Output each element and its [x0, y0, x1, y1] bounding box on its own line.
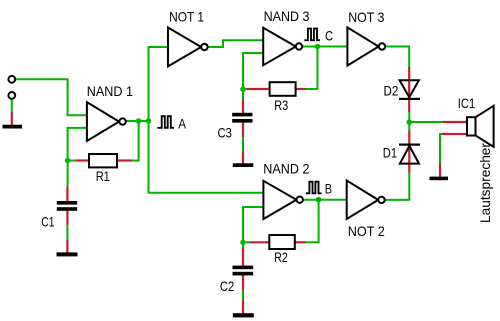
- pin R2 right red: [294, 241, 306, 243]
- node NAND1 out / R1: [136, 118, 142, 124]
- wire below C1: [66, 226, 68, 241]
- svg-text:C: C: [325, 28, 333, 44]
- svg-text:NOT 2: NOT 2: [348, 223, 385, 239]
- ground speaker: [430, 177, 449, 181]
- svg-text:B: B: [325, 181, 332, 197]
- svg-text:NAND 1: NAND 1: [87, 83, 133, 99]
- waveform symbol A: [157, 116, 174, 128]
- pin C1 top red: [66, 187, 68, 203]
- wire around diode node: [408, 112, 410, 131]
- wire NAND2 output to NOT2 input: [303, 199, 348, 201]
- svg-text:D2: D2: [384, 83, 399, 99]
- ground C2: [233, 313, 254, 317]
- pin R3 right red: [295, 88, 307, 90]
- wire NAND1 output: [126, 120, 150, 122]
- node R1/C1: [65, 158, 71, 164]
- svg-text:C1: C1: [41, 213, 54, 229]
- wire R1 right to NAND1 output: [132, 121, 139, 161]
- not-gate NOT1: [168, 28, 201, 67]
- wire R3 left: [243, 88, 248, 90]
- pin R2 left red: [250, 241, 271, 243]
- pin C2 ground red: [242, 300, 244, 314]
- pin D2 red through: [408, 67, 410, 112]
- wire R1 left: [68, 160, 76, 162]
- ground C3: [233, 163, 254, 167]
- not-gate NOT3: [347, 27, 378, 65]
- node NAND3 out / R3: [315, 44, 321, 50]
- wire node A up to NOT1 input: [149, 47, 169, 121]
- diode D2: [400, 80, 419, 97]
- diode D1 cathode bar: [399, 144, 420, 146]
- svg-text:Lautsprecher: Lautsprecher: [477, 143, 493, 223]
- node D1/D2/speaker: [407, 119, 413, 125]
- wire NAND3 lower input to R3/C3 node: [243, 53, 264, 100]
- wire node B down to R2 right: [305, 200, 319, 243]
- ground C1: [57, 252, 78, 256]
- wire NAND3 output to NOT3 input: [302, 46, 348, 48]
- svg-text:A: A: [178, 115, 186, 131]
- speaker IC1 cone: [476, 106, 494, 147]
- input terminal upper: [8, 76, 15, 83]
- node A junction: [146, 118, 152, 124]
- pin C1 bottom red: [66, 210, 68, 226]
- pin C2 bottom red: [242, 275, 244, 290]
- input terminal lower: [8, 92, 15, 99]
- pin R3 left red: [247, 88, 271, 90]
- svg-text:NOT 3: NOT 3: [348, 9, 384, 25]
- capacitor C3: [232, 113, 252, 117]
- waveform symbol B: [306, 182, 322, 194]
- node R3/C3: [240, 86, 246, 92]
- node B junction: [316, 197, 322, 203]
- capacitor C2: [233, 266, 254, 270]
- wire below C3: [242, 137, 244, 152]
- svg-text:R1: R1: [96, 168, 110, 184]
- svg-text:R3: R3: [274, 97, 288, 113]
- pin R1 right red: [116, 159, 132, 161]
- wire below D1 to NOT2 output: [408, 173, 410, 201]
- svg-text:D1: D1: [383, 145, 397, 161]
- pin D1 red through: [408, 131, 410, 173]
- wire node up to NAND2 lower input: [243, 207, 264, 242]
- svg-text:NOT 1: NOT 1: [169, 8, 204, 24]
- wire lower terminal to ground: [11, 99, 13, 113]
- svg-text:NAND 2: NAND 2: [263, 160, 309, 176]
- diode D2 cathode bar: [399, 98, 420, 100]
- wire R2 left to node: [243, 241, 251, 243]
- pin lower terminal red: [11, 112, 13, 126]
- pin R1 left red: [76, 159, 91, 161]
- resistor R1: [89, 154, 117, 167]
- wire NAND1 lower input / C1 / R1 vertical: [68, 128, 88, 187]
- resistor R3: [270, 82, 296, 96]
- not-gate NOT2: [347, 181, 379, 220]
- pin speaker top red: [443, 121, 468, 123]
- wire R3 right up to NAND3 output: [306, 47, 318, 90]
- svg-text:NAND 3: NAND 3: [264, 8, 310, 24]
- svg-text:C2: C2: [220, 278, 234, 294]
- wire NOT2 output: [385, 199, 411, 201]
- pin C3 ground red: [242, 152, 244, 165]
- speaker IC1 coil: [467, 117, 476, 135]
- pin C3 top red: [242, 100, 244, 114]
- wire node down to C2: [242, 242, 244, 248]
- wire below C2: [242, 289, 244, 300]
- pin C1 ground red: [66, 240, 68, 253]
- pin speaker ground red: [439, 163, 441, 178]
- nand-gate NAND2: [263, 181, 296, 219]
- wire node A down to NAND2 upper input: [149, 121, 265, 193]
- wire speaker lower pin down: [440, 134, 443, 163]
- svg-text:IC1: IC1: [458, 95, 476, 111]
- pin speaker bottom red: [442, 133, 469, 135]
- resistor R2: [269, 235, 295, 249]
- pin C3 bottom red: [242, 122, 244, 137]
- diode D1: [400, 146, 419, 164]
- wire input terminal to NAND1 upper input: [15, 79, 87, 115]
- wire NOT1 output to NAND3 upper input: [207, 40, 263, 47]
- pin C2 top red: [242, 248, 244, 267]
- wire NOT3 output down to D2: [385, 47, 409, 68]
- nand-gate NAND1: [87, 102, 119, 141]
- svg-text:C3: C3: [218, 125, 232, 141]
- ground input: [3, 125, 23, 129]
- nand-gate NAND3: [263, 28, 296, 65]
- wire diode node to speaker: [409, 121, 443, 123]
- node R2/C2: [240, 240, 246, 246]
- svg-text:R2: R2: [274, 249, 288, 265]
- waveform symbol C: [304, 29, 320, 41]
- capacitor C1: [57, 201, 77, 205]
